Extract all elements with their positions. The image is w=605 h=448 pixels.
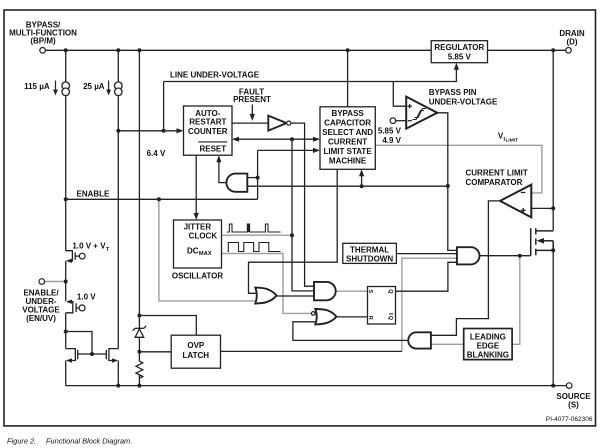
svg-text:SHUTDOWN: SHUTDOWN xyxy=(346,255,393,264)
svg-text:COMPARATOR: COMPARATOR xyxy=(466,178,523,187)
svg-text:MACHINE: MACHINE xyxy=(329,157,367,166)
svg-text:(BP/M): (BP/M) xyxy=(30,37,56,46)
svg-text:BYPASS PIN: BYPASS PIN xyxy=(429,88,477,97)
svg-text:4.9 V: 4.9 V xyxy=(382,136,401,145)
svg-text:COUNTER: COUNTER xyxy=(188,127,228,136)
svg-text:(EN/UV): (EN/UV) xyxy=(26,314,56,323)
svg-text:1.0 V: 1.0 V xyxy=(77,292,96,301)
svg-text:REGULATOR: REGULATOR xyxy=(434,43,484,52)
svg-text:1.0 V + V: 1.0 V + V xyxy=(72,241,106,250)
svg-text:(S): (S) xyxy=(568,401,579,410)
svg-text:CLOCK: CLOCK xyxy=(189,232,218,241)
svg-text:CURRENT LIMIT: CURRENT LIMIT xyxy=(466,169,528,178)
svg-text:5.85 V: 5.85 V xyxy=(448,53,472,62)
svg-text:Functional Block Diagram.: Functional Block Diagram. xyxy=(46,437,132,446)
svg-text:RESTART: RESTART xyxy=(189,118,226,127)
svg-text:LIMIT: LIMIT xyxy=(506,138,519,144)
svg-text:BYPASS: BYPASS xyxy=(331,109,364,118)
svg-text:Q: Q xyxy=(387,316,393,321)
svg-text:JITTER: JITTER xyxy=(184,223,212,232)
svg-text:MAX: MAX xyxy=(199,251,212,257)
svg-text:RESET: RESET xyxy=(199,145,226,154)
svg-text:CURRENT: CURRENT xyxy=(328,138,367,147)
svg-text:PRESENT: PRESENT xyxy=(233,95,271,104)
svg-text:(D): (D) xyxy=(566,38,577,47)
svg-text:BLANKING: BLANKING xyxy=(467,351,509,360)
svg-text:DC: DC xyxy=(187,247,199,256)
svg-text:T: T xyxy=(106,247,110,253)
svg-text:EDGE: EDGE xyxy=(477,342,500,351)
svg-text:ENABLE: ENABLE xyxy=(77,189,111,198)
svg-text:S: S xyxy=(367,289,373,293)
svg-text:25 µA: 25 µA xyxy=(83,82,105,91)
svg-text:R: R xyxy=(367,316,373,320)
svg-text:6.4 V: 6.4 V xyxy=(147,149,166,158)
svg-text:PI-4077-062306: PI-4077-062306 xyxy=(546,416,593,423)
svg-text:115 µA: 115 µA xyxy=(24,82,50,91)
svg-text:Figure 2.: Figure 2. xyxy=(7,437,36,446)
svg-text:OSCILLATOR: OSCILLATOR xyxy=(172,271,223,280)
svg-text:Q: Q xyxy=(387,289,393,294)
svg-text:LIMIT STATE: LIMIT STATE xyxy=(324,147,373,156)
svg-text:CAPACITOR: CAPACITOR xyxy=(324,119,371,128)
svg-text:LEADING: LEADING xyxy=(470,333,506,342)
svg-text:5.85 V: 5.85 V xyxy=(378,127,402,136)
svg-text:SELECT AND: SELECT AND xyxy=(322,128,373,137)
svg-text:LATCH: LATCH xyxy=(183,351,210,360)
svg-text:LINE UNDER-VOLTAGE: LINE UNDER-VOLTAGE xyxy=(170,71,260,80)
svg-text:UNDER-VOLTAGE: UNDER-VOLTAGE xyxy=(429,98,498,107)
svg-text:OVP: OVP xyxy=(187,341,205,350)
svg-text:THERMAL: THERMAL xyxy=(350,246,389,255)
